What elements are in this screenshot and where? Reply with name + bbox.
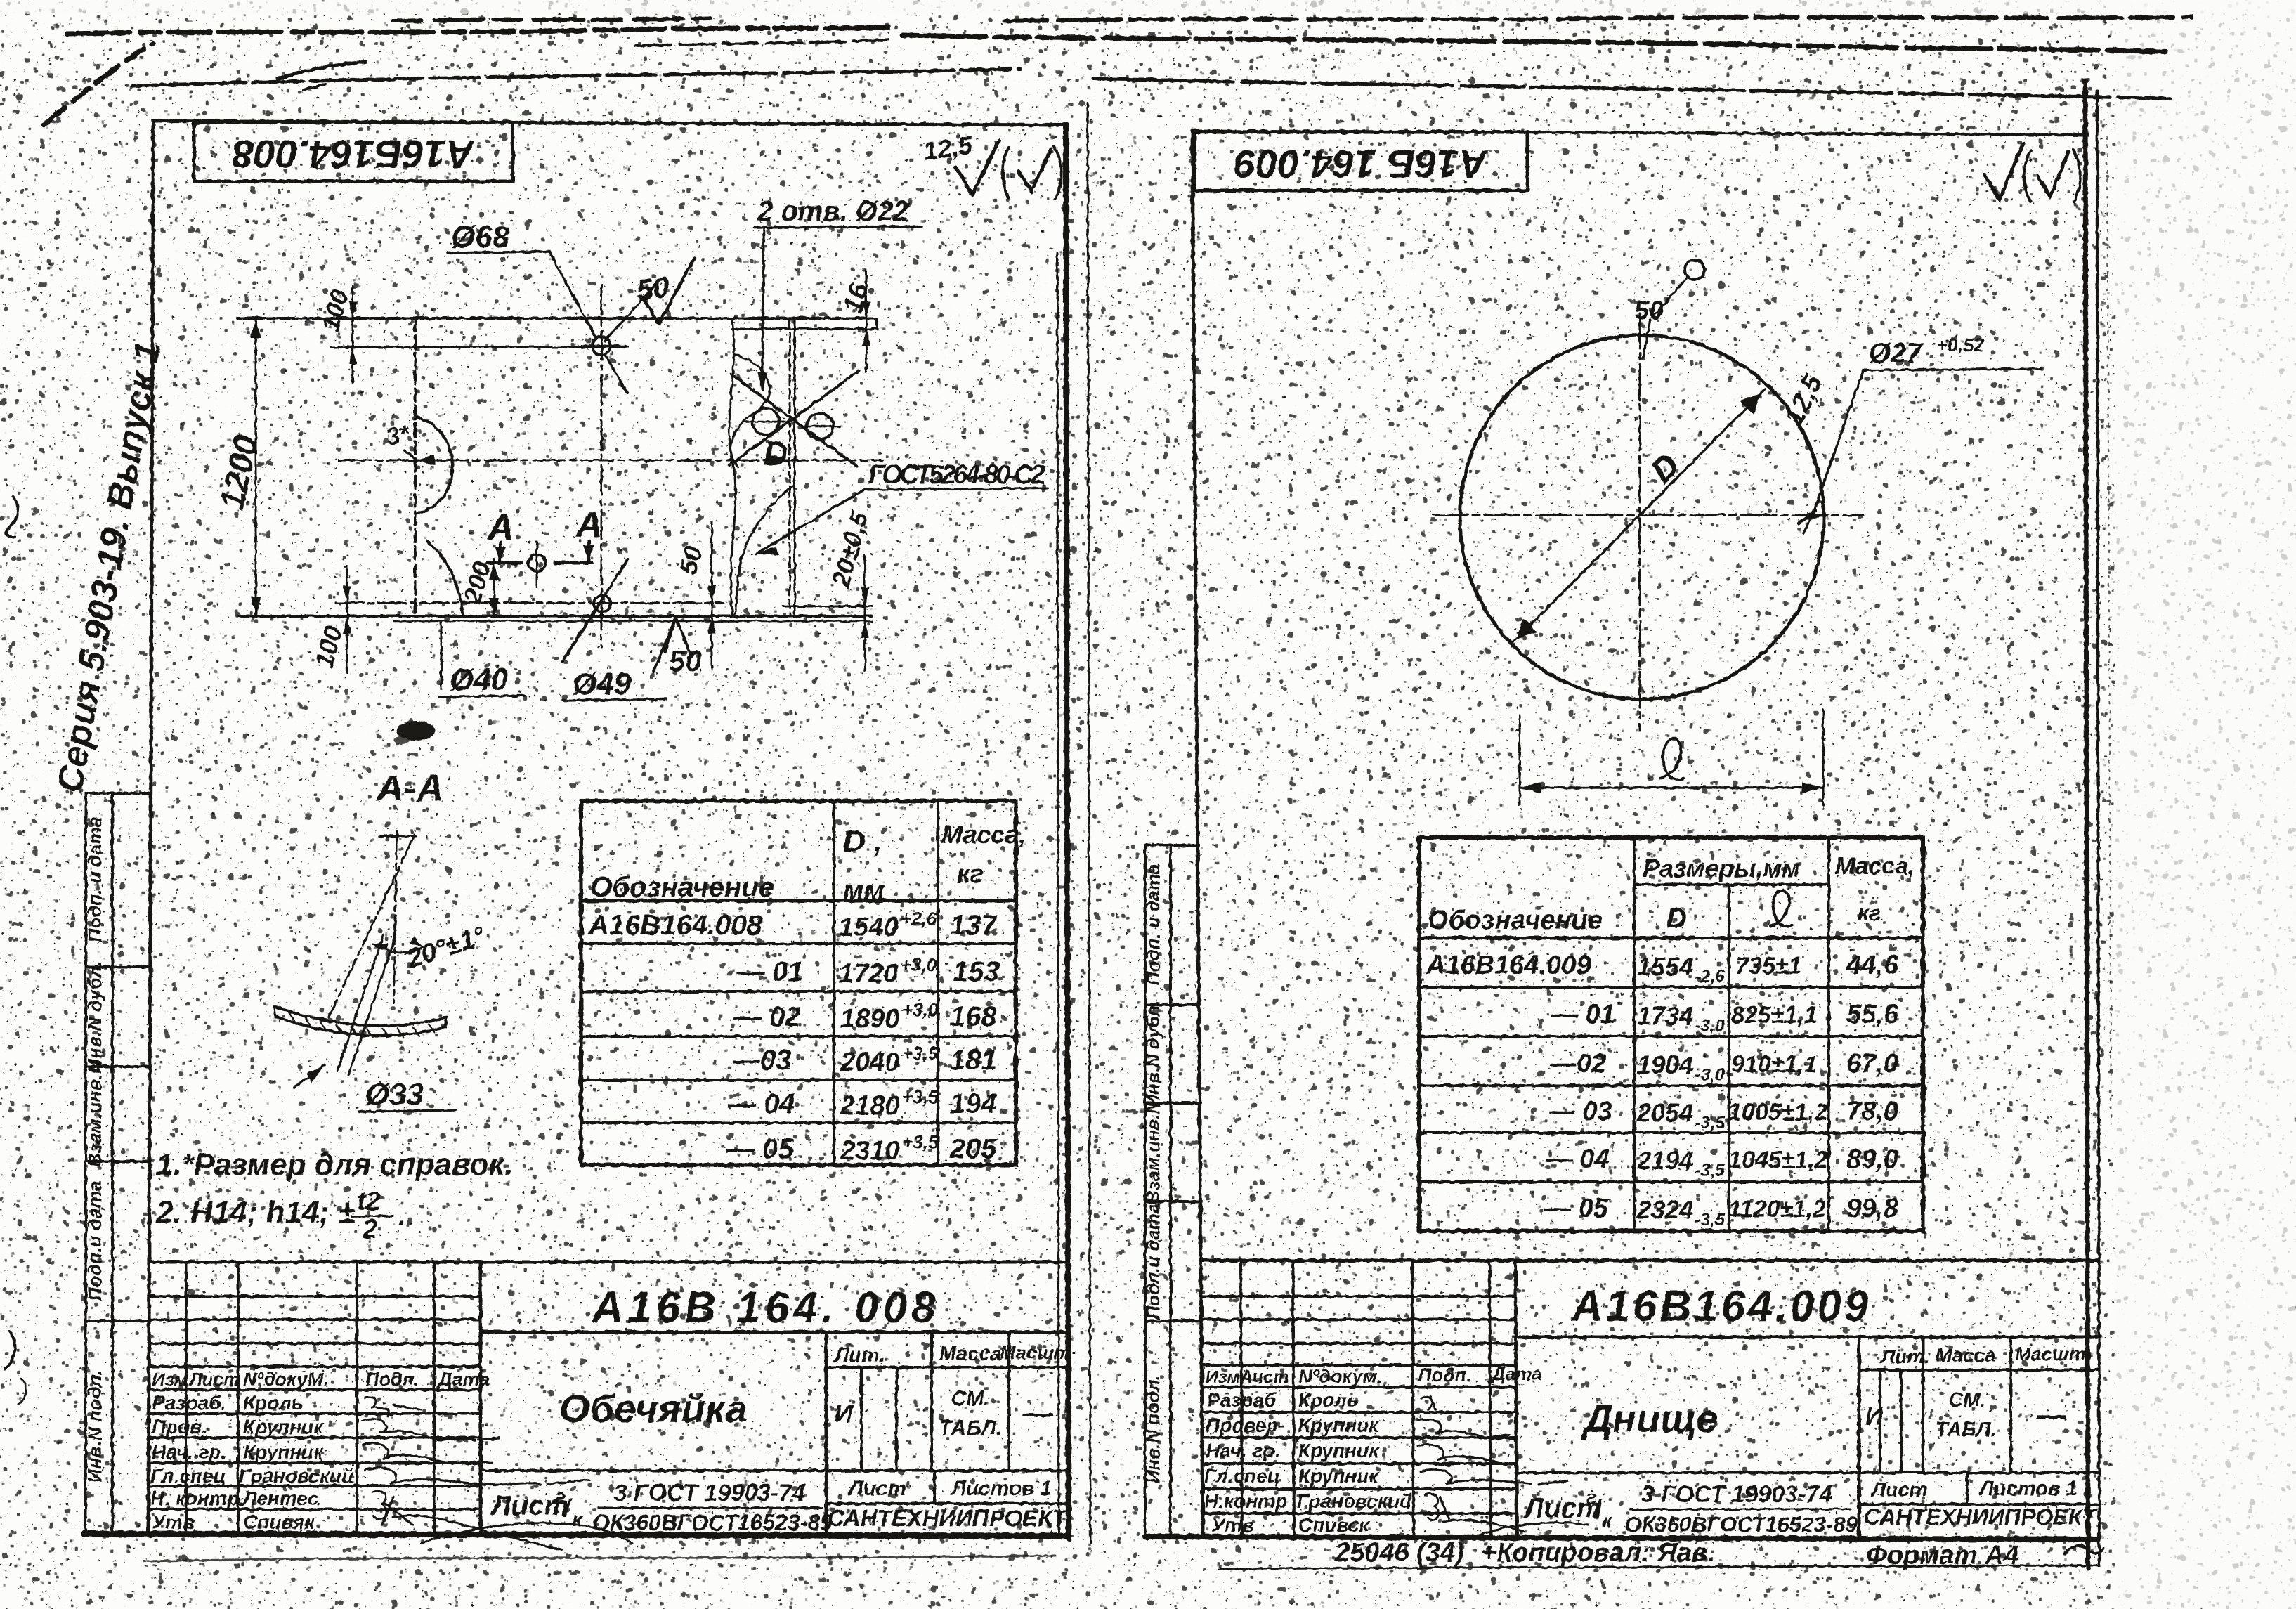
- svg-text:ОК360ВГОСТ16523-89: ОК360ВГОСТ16523-89: [592, 1510, 833, 1535]
- svg-text:+3,0: +3,0: [902, 999, 939, 1020]
- svg-text:Подп.: Подп.: [365, 1369, 419, 1390]
- bottom faint wavy line under left sheet: [144, 1556, 1055, 1561]
- svg-text:+0,52: +0,52: [1936, 334, 1984, 356]
- angle arc: [374, 944, 423, 953]
- script l label: [1659, 739, 1683, 780]
- svg-text:И: И: [1865, 1402, 1884, 1431]
- svg-text:1540: 1540: [839, 913, 899, 942]
- designation cell bottom: [481, 1331, 1069, 1334]
- svg-text:Провер-: Провер-: [1206, 1414, 1285, 1436]
- far right faint dotted vertical: [2107, 137, 2111, 1124]
- sheet 2 right border double: [2085, 81, 2088, 1568]
- torn edge second line: [636, 39, 891, 46]
- lap inner bottom line: [783, 606, 872, 608]
- svg-text:А16В164.009: А16В164.009: [1570, 1282, 1872, 1331]
- svg-text:кг: кг: [1858, 900, 1881, 925]
- svg-text:А16В164.009: А16В164.009: [1426, 951, 1591, 980]
- break loop curve upper: [731, 355, 769, 467]
- svg-text:Масса,: Масса,: [941, 820, 1026, 849]
- svg-text:1734: 1734: [1637, 1001, 1693, 1030]
- svg-text:А16Б 164.009: А16Б 164.009: [1234, 142, 1489, 186]
- name/lit divider: [1858, 1337, 1861, 1537]
- svg-text:2 отв. Ø22: 2 отв. Ø22: [757, 196, 908, 227]
- svg-text:78,0: 78,0: [1846, 1097, 1898, 1126]
- svg-text:Н. контр.: Н. контр.: [150, 1487, 244, 1509]
- svg-text:А-А: А-А: [375, 767, 444, 809]
- svg-text:Крупник: Крупник: [1298, 1440, 1380, 1461]
- break wavy line: [729, 320, 736, 616]
- svg-text:Обозначение: Обозначение: [590, 872, 774, 903]
- svg-text:Ø40: Ø40: [450, 663, 509, 697]
- bottom hole: [594, 595, 611, 612]
- sheet 2 left border: [1192, 131, 1203, 1538]
- 50 flag at top: [1685, 260, 1704, 280]
- lap inner top line: [732, 328, 877, 330]
- svg-text:-3,5: -3,5: [1695, 1161, 1726, 1180]
- svg-text:Грановский: Грановский: [239, 1465, 353, 1487]
- 200 dimension: [493, 559, 495, 616]
- svg-text:+3,5: +3,5: [902, 1086, 939, 1107]
- hole circle right of seam: [807, 413, 833, 440]
- svg-text:Нач. гр.: Нач. гр.: [1206, 1440, 1280, 1461]
- lap right edge top: [876, 318, 878, 330]
- svg-text:Кроль: Кроль: [243, 1392, 303, 1414]
- svg-text:67,0: 67,0: [1846, 1049, 1898, 1079]
- svg-text:Пров.: Пров.: [152, 1416, 207, 1438]
- svg-text:— 04: — 04: [727, 1088, 795, 1119]
- weld seam double line: [789, 318, 791, 616]
- svg-text:Nºдокум.: Nºдокум.: [1298, 1366, 1382, 1387]
- svg-text:Инв.N подл.: Инв.N подл.: [1142, 1375, 1163, 1484]
- bottom right squiggle: [2064, 1546, 2103, 1554]
- svg-text:181: 181: [950, 1045, 997, 1076]
- svg-text:2054: 2054: [1636, 1098, 1693, 1127]
- svg-text:25046 (34): 25046 (34): [1334, 1538, 1464, 1568]
- signatures squiggles right sheet: [1418, 1397, 1588, 1536]
- svg-text:— 01: — 01: [736, 956, 804, 987]
- svg-text:Спивяк: Спивяк: [243, 1511, 315, 1533]
- svg-text:194: 194: [950, 1088, 997, 1119]
- 100 top dimension: [352, 285, 354, 383]
- dia49 leader slash through bottom hole: [562, 559, 628, 662]
- svg-text:Гл.спец: Гл.спец: [1204, 1465, 1280, 1487]
- sheet 2 top border: [1192, 131, 2088, 135]
- dia33 label with leader: [294, 1065, 325, 1088]
- horizontal centerline: [1433, 514, 1863, 516]
- svg-text:-3,0: -3,0: [1695, 1016, 1725, 1036]
- svg-text:Формат А4: Формат А4: [1866, 1541, 2019, 1570]
- svg-text:ТАБЛ.: ТАБЛ.: [939, 1416, 1001, 1440]
- svg-text:+2,6: +2,6: [901, 908, 937, 929]
- sheet 1 bottom border: [84, 1534, 1069, 1536]
- svg-text:1554: 1554: [1637, 952, 1693, 981]
- ink smudge blob left sheet: [397, 721, 435, 741]
- svg-text:Крупник: Крупник: [1298, 1465, 1380, 1487]
- top hole: [592, 337, 611, 355]
- svg-text:.: .: [398, 1198, 406, 1232]
- signatures squiggles left sheet: [363, 1397, 632, 1550]
- left bottom arc bulge: [427, 541, 463, 616]
- torn page top edge line left part: [67, 27, 894, 34]
- svg-text:+3,5: +3,5: [902, 1043, 939, 1064]
- left columns verticals: [185, 1262, 188, 1534]
- svg-text:Кроль: Кроль: [1298, 1389, 1358, 1411]
- svg-text:Крупник: Крупник: [243, 1416, 325, 1438]
- vertical centerline through holes: [601, 285, 603, 646]
- break loop curve lower: [735, 485, 795, 616]
- svg-text:Изм: Изм: [152, 1369, 188, 1390]
- 50 right dimension: [711, 522, 713, 667]
- horizontal centerline D: [339, 460, 882, 462]
- svg-text:Обозначение: Обозначение: [1428, 906, 1603, 935]
- svg-text:Днище: Днище: [1581, 1396, 1718, 1440]
- svg-text:D: D: [1666, 903, 1687, 934]
- svg-text:3 ГОСТ 19903-74: 3 ГОСТ 19903-74: [614, 1480, 805, 1506]
- svg-text:ИзмАист: ИзмАист: [1206, 1367, 1289, 1387]
- inner page top border wavy right: [1093, 79, 2170, 98]
- hole tick marks: [746, 421, 785, 423]
- svg-text:99,8: 99,8: [1846, 1194, 1899, 1223]
- svg-text:-3,5: -3,5: [1695, 1113, 1726, 1133]
- dia40 label and leader: [441, 623, 443, 689]
- svg-text:t2: t2: [357, 1187, 381, 1216]
- svg-text:ОК360ВГОСТ16523-89: ОК360ВГОСТ16523-89: [1624, 1512, 1858, 1537]
- svg-text:2. Н14; h14; ±: 2. Н14; h14; ±: [155, 1195, 355, 1230]
- part left edge (fold): [414, 318, 417, 616]
- svg-text:Масса,: Масса,: [1835, 853, 1915, 880]
- svg-text:— 05: — 05: [726, 1133, 794, 1164]
- svg-text:ТАБЛ.: ТАБЛ.: [1936, 1419, 1996, 1441]
- svg-text:44,6: 44,6: [1846, 951, 1899, 980]
- leader hole to 50 mark: [605, 282, 658, 341]
- svg-text:—: —: [2036, 1398, 2067, 1431]
- svg-text:Масса: Масса: [939, 1343, 1001, 1365]
- svg-text:Масшт·: Масшт·: [1000, 1342, 1077, 1363]
- svg-text:Дата: Дата: [1491, 1363, 1542, 1384]
- svg-text:—03: —03: [731, 1045, 792, 1076]
- svg-text:Гл.спец: Гл.спец: [150, 1465, 226, 1487]
- hole axis double lines: [337, 934, 384, 1071]
- svg-text:— 01: — 01: [1551, 1000, 1615, 1029]
- 50 finish mark bottom edge: [653, 618, 676, 672]
- sheet 1 right border: [1066, 125, 1069, 1539]
- svg-text:153: 153: [953, 956, 1000, 987]
- part bottom edge thin double: [393, 620, 872, 623]
- svg-text:— 04: — 04: [1545, 1145, 1610, 1174]
- svg-text:D: D: [764, 436, 788, 473]
- inner page top border wavy left: [133, 69, 1020, 86]
- left margin scribble 2: [6, 1332, 15, 1369]
- vertical centerline: [393, 831, 397, 1003]
- svg-text:735±1: 735±1: [1735, 953, 1801, 979]
- svg-text:Лит.: Лит.: [1880, 1346, 1930, 1367]
- svg-text:Подп.: Подп.: [1418, 1364, 1472, 1386]
- left margin scribble 1: [6, 496, 18, 538]
- svg-text:Разраб: Разраб: [1207, 1389, 1277, 1411]
- diagonal D dimension: [1512, 389, 1765, 644]
- bottom hole centerline extension: [336, 602, 724, 604]
- D dimension arrowheads: [415, 455, 435, 465]
- lit block: [826, 1366, 1069, 1369]
- svg-text:2180: 2180: [840, 1091, 900, 1121]
- svg-text:137: 137: [950, 910, 998, 941]
- svg-text:910±1,1: 910±1,1: [1731, 1051, 1818, 1078]
- sheet 1 left border: [148, 121, 153, 1534]
- 20+-0,5 dimension: [864, 555, 866, 671]
- vertical centerline: [1639, 313, 1641, 731]
- svg-text:Утв: Утв: [1211, 1514, 1254, 1536]
- svg-text:— 02: — 02: [733, 1001, 801, 1032]
- svg-text:Листов 1: Листов 1: [1978, 1478, 2078, 1500]
- margin cleanup overlays: [2115, 0, 2296, 1609]
- svg-text:А16В164.008: А16В164.008: [588, 910, 763, 941]
- svg-text:Лист: Лист: [1870, 1479, 1928, 1501]
- svg-text:А: А: [575, 504, 603, 545]
- svg-text:1890: 1890: [840, 1004, 900, 1034]
- svg-text:1120±1,2: 1120±1,2: [1728, 1196, 1826, 1223]
- svg-text:Н.контр: Н.контр: [1204, 1490, 1287, 1512]
- sheet 2 bottom border: [1145, 1537, 2098, 1539]
- svg-text:Взам.инв.N: Взам.инв.N: [1142, 1100, 1163, 1204]
- svg-text:Взам.инв.N: Взам.инв.N: [84, 1060, 105, 1167]
- svg-text:САНТЕХНИИПРОЕКТ: САНТЕХНИИПРОЕКТ: [828, 1505, 1069, 1531]
- svg-text:Крупник: Крупник: [243, 1441, 325, 1463]
- top hole slash: [606, 356, 627, 393]
- svg-text:И: И: [835, 1399, 854, 1428]
- svg-text:168: 168: [950, 1001, 997, 1032]
- svg-text:А16Б164.008: А16Б164.008: [232, 132, 476, 176]
- svg-text:Листов 1: Листов 1: [950, 1477, 1052, 1500]
- part bottom edge: [237, 615, 872, 618]
- svg-text:+3,5: +3,5: [902, 1131, 939, 1152]
- left columns rows: [149, 1295, 481, 1298]
- top hole centerline extension: [331, 346, 627, 348]
- svg-text:2310: 2310: [840, 1136, 900, 1166]
- svg-text:1904: 1904: [1637, 1050, 1693, 1079]
- svg-text:2: 2: [362, 1215, 377, 1244]
- svg-text:—: —: [1022, 1396, 1055, 1431]
- svg-text:СМ.: СМ.: [1948, 1389, 1985, 1412]
- 16 dimension: [866, 271, 868, 371]
- svg-text:Размеры,мм: Размеры,мм: [1643, 854, 1801, 882]
- svg-text:—02: —02: [1549, 1049, 1606, 1079]
- svg-text:2324: 2324: [1636, 1195, 1693, 1224]
- svg-text:2040: 2040: [840, 1048, 900, 1077]
- svg-text:Лист: Лист: [188, 1369, 240, 1390]
- svg-text:САНТЕХНИИПРОЕКТ: САНТЕХНИИПРОЕКТ: [1864, 1504, 2098, 1530]
- 100 bottom dimension: [346, 566, 348, 673]
- svg-text:Подп.и дата: Подп.и дата: [1142, 1204, 1163, 1320]
- X slash 2 through holes: [731, 374, 857, 467]
- svg-text:Грановский: Грановский: [1297, 1490, 1411, 1512]
- top-left diagonal scribbles: [44, 44, 153, 125]
- torn page top edge line right part: [902, 35, 2165, 52]
- main circle: [1460, 335, 1824, 699]
- svg-text:Инв.N дубл.: Инв.N дубл.: [84, 960, 105, 1072]
- svg-text:мм: мм: [843, 875, 885, 906]
- svg-text:1.*Размер для справок.: 1.*Размер для справок.: [156, 1147, 513, 1182]
- lit block texts: [490, 1342, 1077, 1535]
- svg-text:-3,5: -3,5: [1695, 1210, 1726, 1230]
- middle separator line: [1088, 103, 1090, 1543]
- svg-text:— 03: — 03: [1548, 1097, 1612, 1126]
- hole marks on centerline: [1804, 500, 1818, 533]
- 1200 dimension: [255, 318, 257, 616]
- svg-text:СМ.: СМ.: [951, 1387, 990, 1410]
- svg-text:825±1,1: 825±1,1: [1731, 1002, 1818, 1029]
- designation cell bottom: [1515, 1336, 2098, 1339]
- svg-text:-2,6: -2,6: [1695, 967, 1726, 986]
- svg-text:Нач. гр.: Нач. гр.: [152, 1441, 226, 1463]
- svg-text:Подп. и дата: Подп. и дата: [1142, 864, 1163, 985]
- svg-text:Крупник: Крупник: [1298, 1414, 1380, 1436]
- sheet 1 top border: [153, 121, 1066, 125]
- svg-text:А16В 164. 008: А16В 164. 008: [590, 1284, 939, 1332]
- svg-text:Масшт.: Масшт.: [2015, 1343, 2091, 1364]
- hole circle left of seam: [752, 408, 779, 435]
- svg-text:50: 50: [669, 644, 702, 677]
- svg-text:Ø27: Ø27: [1869, 338, 1923, 369]
- svg-text:-3,0: -3,0: [1695, 1065, 1725, 1085]
- tilted radius line: [329, 835, 415, 1017]
- svg-text:3 ГОСТ 19903-74: 3 ГОСТ 19903-74: [1641, 1481, 1832, 1508]
- svg-text:1720: 1720: [839, 959, 899, 989]
- svg-text:89,0: 89,0: [1846, 1145, 1898, 1174]
- svg-text:Ø49: Ø49: [573, 667, 632, 701]
- l dimension bottom: [1519, 715, 1521, 805]
- svg-text:Обечяйка: Обечяйка: [559, 1386, 748, 1431]
- name/lit divider: [825, 1332, 828, 1534]
- svg-text:2194: 2194: [1636, 1146, 1693, 1175]
- svg-text:1045±1,2: 1045±1,2: [1728, 1147, 1828, 1173]
- dia68 leader: [549, 252, 596, 339]
- svg-text:Подп.и дата: Подп.и дата: [84, 1180, 105, 1301]
- shell wall arc strip: [274, 1006, 447, 1026]
- svg-text:— 05: — 05: [1544, 1194, 1609, 1223]
- svg-text:55,6: 55,6: [1846, 1000, 1899, 1029]
- svg-text:Масса: Масса: [1936, 1344, 1996, 1366]
- svg-text:D ,: D ,: [843, 824, 882, 859]
- svg-text:Лит.: Лит.: [833, 1344, 885, 1367]
- svg-text:ГОСТ5264-80-С2: ГОСТ5264-80-С2: [868, 460, 1045, 490]
- left edge big arc bulge: [417, 417, 452, 514]
- svg-text:Утв: Утв: [152, 1511, 195, 1533]
- svg-text:Разраб.: Разраб.: [152, 1392, 226, 1414]
- lit block: [1859, 1369, 2098, 1372]
- stamp column outer: [84, 793, 87, 1534]
- left columns verticals: [1241, 1261, 1242, 1537]
- svg-text:Ø33: Ø33: [365, 1077, 424, 1112]
- lit block texts: [1522, 1343, 2098, 1537]
- svg-text:к: к: [572, 1508, 584, 1531]
- part top edge: [237, 317, 877, 320]
- svg-text:205: 205: [949, 1133, 997, 1164]
- svg-text:+Копировал: Яав.: +Копировал: Яав.: [1481, 1538, 1715, 1568]
- svg-text:Инв.N дубл.: Инв.N дубл.: [1142, 1000, 1163, 1107]
- svg-text:Подп. и дата: Подп. и дата: [84, 817, 105, 943]
- X slash 1 through holes: [729, 371, 859, 465]
- svg-text:Лист: Лист: [847, 1477, 906, 1500]
- svg-text:Ø68: Ø68: [451, 220, 510, 254]
- svg-text:Дата: Дата: [437, 1369, 490, 1390]
- dia22 leader vertical: [762, 228, 764, 391]
- svg-text:1005±1,2: 1005±1,2: [1728, 1099, 1828, 1126]
- svg-text:Инв.N подл.: Инв.N подл.: [84, 1370, 105, 1483]
- bottom line under right sheet: [1219, 1565, 2099, 1569]
- svg-text:кг: кг: [957, 859, 983, 888]
- svg-text:+3,0: +3,0: [901, 954, 937, 975]
- svg-text:к: к: [1602, 1510, 1613, 1532]
- svg-text:Спивск: Спивск: [1298, 1514, 1370, 1536]
- svg-text:NºдокуМ.: NºдокуМ.: [243, 1369, 329, 1390]
- left columns rows: [1203, 1295, 1515, 1298]
- svg-text:Лентес: Лентес: [242, 1487, 319, 1509]
